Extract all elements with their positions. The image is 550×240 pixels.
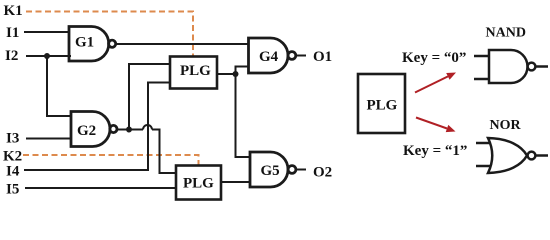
svg-text:G5: G5 [261, 163, 280, 179]
svg-text:G4: G4 [259, 49, 279, 65]
svg-text:I4: I4 [6, 164, 20, 180]
svg-text:G1: G1 [75, 35, 94, 51]
svg-text:I1: I1 [6, 25, 19, 41]
svg-text:I5: I5 [6, 182, 19, 198]
svg-text:PLG: PLG [367, 98, 398, 114]
svg-text:G2: G2 [77, 123, 96, 139]
svg-text:PLG: PLG [183, 176, 214, 192]
svg-text:PLG: PLG [180, 63, 211, 79]
svg-text:Key = “0”: Key = “0” [402, 50, 466, 66]
svg-text:O1: O1 [313, 49, 332, 65]
svg-text:K1: K1 [4, 3, 23, 19]
svg-text:K2: K2 [3, 149, 22, 165]
svg-text:Key = “1”: Key = “1” [403, 143, 467, 159]
svg-text:I3: I3 [6, 131, 19, 147]
svg-text:NOR: NOR [490, 118, 522, 133]
svg-text:NAND: NAND [486, 26, 526, 41]
svg-text:I2: I2 [5, 48, 18, 64]
svg-text:O2: O2 [313, 165, 332, 181]
